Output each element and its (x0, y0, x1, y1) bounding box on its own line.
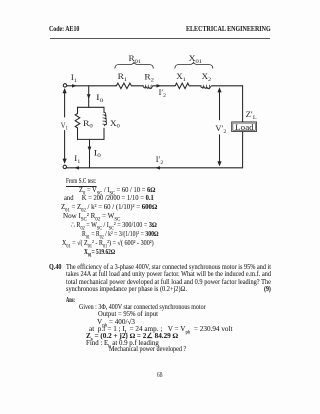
brace R01 (over R1 and R2) with value label R01 (115, 54, 153, 68)
wire: between X1 and X2 (190, 85, 201, 87)
wire: R0 branch bottom lead (77, 129, 79, 140)
wire: shunt block bottom bar (78, 138, 105, 140)
resistor R1 (series, primary winding) (115, 72, 132, 88)
svg-text:V′2: V′2 (215, 124, 226, 135)
inductor X2 (tight coil scribble) (201, 72, 212, 89)
svg-text:I0: I0 (94, 148, 101, 159)
node: input terminal bottom (open circle) (63, 165, 66, 168)
svg-text:X2: X2 (202, 72, 212, 83)
svg-text:I′2: I′2 (159, 88, 167, 99)
page number (157, 371, 162, 378)
header rule (50, 38, 270, 39)
inductor X1 (leakage reactance, zigzag form) (174, 72, 190, 88)
resistor R0 (core-loss branch, vertical zigzag) with label (75, 113, 93, 130)
svg-text:R2: R2 (144, 73, 154, 84)
svg-text:R0: R0 (83, 119, 93, 130)
inductor X0 (magnetising reactance, vertical coil) with label (103, 112, 120, 129)
header right (186, 26, 271, 33)
svg-text:X01: X01 (189, 54, 203, 65)
current arrow I'2 (bottom) with label (155, 155, 163, 170)
svg-text:R01: R01 (129, 54, 142, 65)
svg-text:I0: I0 (96, 93, 103, 104)
svg-text:I1: I1 (71, 73, 77, 84)
load box with label Z'L (232, 110, 258, 132)
svg-text:I1: I1 (74, 154, 80, 165)
wire: shunt block top bar (78, 106, 105, 108)
current arrow I0 (bottom stem) with label (88, 147, 101, 160)
header left (49, 26, 79, 33)
wire: shunt stem top, junction on top rail (88, 86, 90, 108)
svg-text:V1: V1 (61, 121, 68, 132)
svg-text:X0: X0 (110, 119, 120, 130)
svg-text:Load: Load (235, 123, 254, 132)
wire: X0 branch bottom lead (103, 128, 105, 139)
voltage arrow V'2 (across load) with label (215, 87, 226, 166)
wire: X0 branch top lead (103, 107, 105, 112)
wire: shunt stem bottom, to bottom rail (89, 139, 91, 167)
brace X01 (over X1 and X2) with value label X01 (175, 54, 213, 68)
wire: bottom rail (67, 167, 243, 169)
wire: right vertical to load (242, 86, 244, 168)
answer block (66, 297, 75, 304)
voltage arrow V1 (across input) with label (61, 88, 68, 164)
current arrow I1 (bottom return) with label (74, 154, 80, 170)
resistor R2 (series, secondary referred; tight coil scribble) (143, 73, 154, 89)
svg-text:Z′L: Z′L (246, 110, 258, 121)
current arrow I1 (top) with label I1 (71, 73, 77, 87)
wire: between R1 and R2 (133, 85, 144, 87)
svg-text:X1: X1 (176, 72, 186, 83)
question Q.40 (49, 264, 62, 271)
worked solution: S.C. test calculations (66, 178, 96, 187)
current arrow I'2 (top) with label (157, 84, 167, 99)
wire: between R2 and X1 (153, 85, 174, 87)
current arrow I0 (top stem) with label (87, 93, 104, 104)
wire: R0 branch top lead (77, 107, 79, 113)
wire: top rail from X2 to right corner (212, 85, 243, 87)
node: input terminal top (open circle) (63, 84, 66, 87)
svg-text:I′2: I′2 (156, 155, 164, 166)
svg-text:R1: R1 (118, 72, 128, 83)
wire: top rail from input node to R1 (67, 85, 116, 87)
